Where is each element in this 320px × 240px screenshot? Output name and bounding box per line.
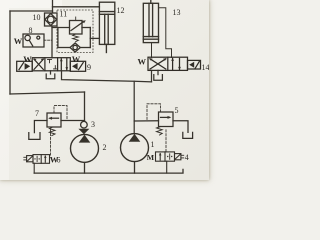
pilot of 7 (dashed) [54,106,67,121]
svg-text:4: 4 [185,153,189,162]
unit 11 right top row [82,27,90,29]
closed center symbols of 9 [48,59,52,61]
valve 14 (2-position) [148,57,201,70]
leads of 4 [181,154,184,156]
solenoid box of 4 [175,154,181,160]
svg-text:11: 11 [60,10,68,19]
svg-text:M: M [147,153,155,162]
wire pump1 suction [134,162,136,174]
relief 11 arrowhead [82,20,86,23]
wire 5 outlet to tank [173,121,188,133]
X arrows left cell of 14 [150,59,166,69]
check valve 10 diamond [45,13,57,25]
wire valve14 T stem [157,70,159,74]
pump 2 [71,134,99,162]
wire pump2 suction [84,162,86,173]
relief 11 spring [73,34,79,42]
relief 11 arrow [71,21,84,30]
wire 7 inlet [61,120,85,122]
svg-text:10: 10 [33,13,41,22]
svg-text:1: 1 [151,140,155,149]
wire top line to cylinder 12 cap [53,6,100,8]
solenoid valve 6 [24,155,50,174]
solenoid left of 9 [17,61,33,71]
svg-text:12: 12 [117,6,125,15]
spring of 5 [157,127,163,136]
svg-text:W: W [23,54,32,64]
svg-text:7: 7 [35,109,39,118]
svg-text:W: W [14,36,23,46]
svg-text:14: 14 [202,63,210,72]
wire valve14 P stem [151,70,153,81]
piston of 12 [99,11,114,13]
wire 6 drain [33,163,35,173]
check valve diamond in 11 [70,43,80,52]
blocked symbol left cell of 6 [36,156,38,161]
solenoid valve 4 [156,152,184,173]
check valve 10 body [45,13,58,26]
wire 4 drain [166,161,168,173]
arrow in 5 [161,116,170,118]
arrow left cell of 4 [159,154,161,161]
pressure switch 8 [23,34,44,47]
unit 11 check row right [80,47,90,49]
cylinder 13 [143,0,171,57]
svg-text:W: W [138,57,147,67]
remote vent of 7 to valve 6 (dashed) [50,130,52,156]
pilot of 5 (dashed) [147,104,161,121]
relief valve 5 [134,104,192,152]
wire check10 to valve 9 A port [51,26,53,58]
parallel arrows right cell of 9 [60,59,62,70]
piston of 13 [143,36,158,38]
wire pump1 pressure vertical [133,81,135,133]
wire valve9 P to pressure rail [62,71,152,82]
tank under valve 14 [154,75,163,81]
svg-text:2: 2 [103,143,107,152]
check valve 10 ball [47,16,54,23]
wire valve9 T port [50,71,52,74]
svg-text:13: 13 [173,8,181,17]
relief valve square in 11 [70,21,83,35]
wire cyl13 cap-side port [151,43,153,58]
wire stem above check 10 [52,0,54,13]
blocked symbol right cell of 4 [169,154,171,160]
svg-text:W: W [72,54,81,64]
X arrows left cell of 9 [34,59,43,69]
svg-text:6: 6 [57,156,61,165]
wire 7 outlet to tank [34,121,47,133]
remote vent of 5 to valve 4 (dashed) [165,130,167,152]
svg-text:8: 8 [29,26,33,35]
node pressure-switch pilot (dashed) [44,39,52,41]
wire unit 11 to cylinder 12 rod side [90,37,99,39]
arrow in 7 [50,117,59,119]
tank under 7 [29,133,40,140]
solenoid of 14 [188,60,201,69]
tank under valve 9 [46,74,55,79]
unit 11 dashed enclosure [57,10,93,53]
tank rail bottom [34,169,183,173]
svg-text:3: 3 [91,120,95,129]
pump 1 [121,134,149,162]
unit 11 left rail [57,28,59,48]
solenoid box of 6 [27,156,33,162]
tank under 5 [183,132,193,138]
valve 9 (4/3 directional) [17,58,86,72]
wire branch to unit 11 [52,27,70,29]
rod of 13 [148,3,150,36]
rod tip of 13 [150,0,152,3]
wire 5 inlet [134,120,158,122]
wire cyl13 rod-side port [159,8,172,58]
leads of 6 [24,156,27,158]
unit 11 check row left [58,47,70,49]
relief valve 7 [29,106,85,156]
unit 11 right rail [89,28,91,48]
wire top horizontal [10,10,53,12]
wire bottom-left to pump2 line [10,92,85,94]
check valve 3 [78,121,89,134]
wire left border vertical [9,11,11,94]
svg-text:5: 5 [175,106,179,115]
spring of 7 [49,127,55,136]
parallel arrows right cell of 14 [172,58,174,69]
svg-text:9: 9 [87,63,91,72]
relief 11 pilot stub [75,17,77,21]
rod tip of 12 [105,44,107,52]
wire pump2 pressure vertical [84,92,86,121]
rod of 12 [104,14,106,44]
arrow right cell of 6 [44,156,46,162]
solenoid right of 9 [70,61,85,71]
check ball in 11 [73,45,77,49]
cylinder 12 [99,2,114,52]
